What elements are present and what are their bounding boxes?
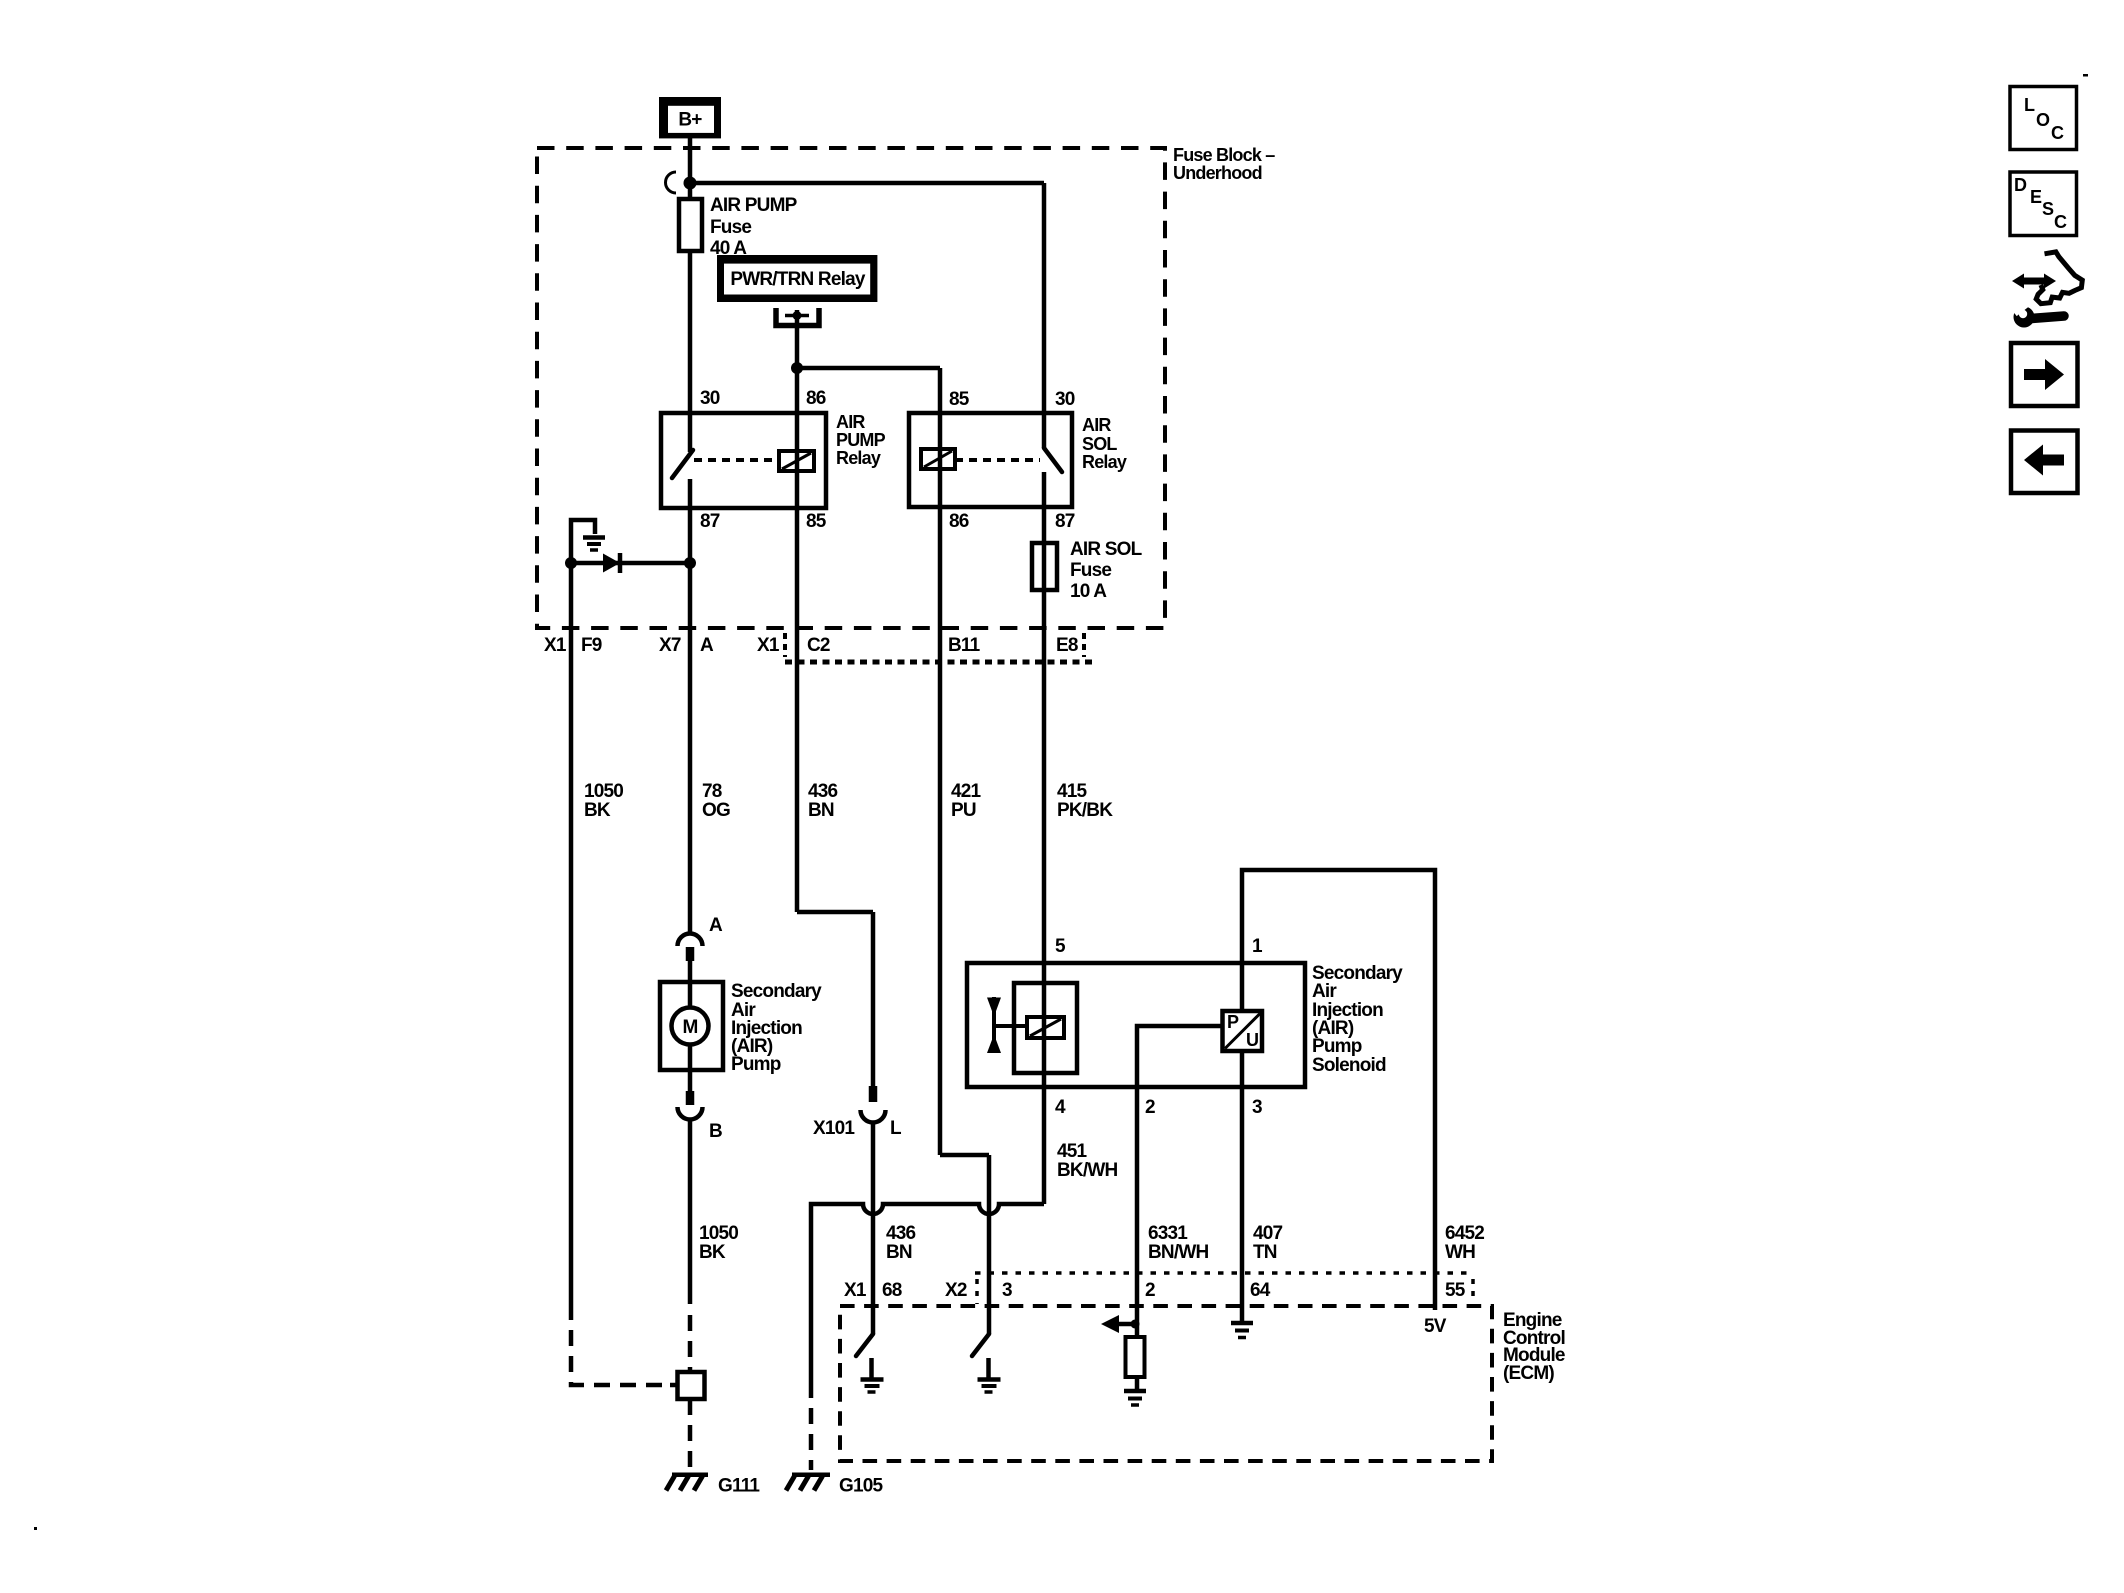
svg-text:SOL: SOL <box>1082 434 1117 454</box>
svg-text:X101: X101 <box>813 1118 855 1139</box>
node junction diode right <box>684 557 696 569</box>
wire below resistor <box>1135 1377 1140 1391</box>
motor M1 circle <box>672 1008 709 1045</box>
svg-text:407: 407 <box>1253 1223 1283 1244</box>
wire B+ drop to fuse <box>688 138 693 199</box>
relay K1 actuation dashed link <box>694 458 779 462</box>
ground symbol in ECM below X2-3 <box>978 1358 1001 1392</box>
Engine Control Module (ECM) dashed enclosure <box>840 1306 1492 1461</box>
svg-text:30: 30 <box>1055 389 1075 410</box>
wire splice tick <box>670 1383 678 1388</box>
relay K2 coil pins 85-86 <box>921 449 955 469</box>
wire ground reference stub in fuse block <box>571 520 595 563</box>
svg-text:M: M <box>682 1017 697 1038</box>
svg-text:AIR: AIR <box>836 412 865 432</box>
svg-text:AIR PUMP: AIR PUMP <box>710 195 798 216</box>
svg-text:Underhood: Underhood <box>1173 163 1262 183</box>
svg-text:86: 86 <box>806 388 826 409</box>
svg-text:1: 1 <box>1252 936 1263 957</box>
wire 1050 BK dashed to splice square <box>571 1304 672 1385</box>
svg-text:BN: BN <box>886 1242 912 1263</box>
connector B female half <box>678 1107 703 1120</box>
svg-text:85: 85 <box>949 389 970 410</box>
fuse AIR SOL Fuse 10 A <box>1032 543 1057 590</box>
svg-text:2: 2 <box>1145 1280 1155 1301</box>
svg-text:BN/WH: BN/WH <box>1148 1242 1208 1263</box>
wire feed across to AIR SOL relay pin 30 <box>690 181 1044 186</box>
svg-text:C2: C2 <box>807 635 830 656</box>
svg-text:S: S <box>2042 199 2054 219</box>
svg-text:X7: X7 <box>659 635 681 656</box>
wire motor internal <box>688 961 693 1091</box>
svg-text:B11: B11 <box>948 635 981 656</box>
svg-text:Relay: Relay <box>1082 452 1127 472</box>
svg-text:X1: X1 <box>844 1280 867 1301</box>
resistor in ECM <box>1126 1337 1145 1377</box>
svg-text:P: P <box>1227 1012 1239 1032</box>
svg-text:Pump: Pump <box>1312 1036 1362 1057</box>
wire dashed splice to G111 <box>688 1399 693 1470</box>
svg-text:451: 451 <box>1057 1141 1088 1162</box>
wire AIR SOL coil pin 85/86 down to B11 as ckt 421 <box>938 368 943 1155</box>
splice square to G111 <box>678 1372 705 1399</box>
svg-text:Air: Air <box>1312 981 1337 1002</box>
relay K2 AIR SOL Relay box <box>909 413 1072 507</box>
wire down to relay pin 30 right <box>1042 183 1047 413</box>
svg-text:415: 415 <box>1057 781 1088 802</box>
wire motor B down ckt 1050 BK <box>688 1119 693 1304</box>
connector X101 female half <box>861 1110 886 1123</box>
wire PWR/TRN coil feed pin 86 through coil pin 85 down to C2 <box>795 310 800 912</box>
svg-text:B: B <box>709 1121 722 1142</box>
wire AIR SOL pin 30 stub <box>1042 413 1047 448</box>
svg-text:Relay: Relay <box>836 448 881 468</box>
svg-text:L: L <box>890 1118 902 1139</box>
wire 421 PU down to ECM pin X2-3 <box>987 1155 992 1334</box>
svg-text:BK/WH: BK/WH <box>1057 1160 1117 1181</box>
sidebar icon back arrow box <box>2011 431 2078 494</box>
connector A male pin <box>686 947 695 961</box>
svg-text:D: D <box>2014 175 2027 195</box>
svg-text:64: 64 <box>1250 1280 1271 1301</box>
wire pin 87 down to motor connector A <box>688 479 693 934</box>
stray scan mark top right <box>2083 74 2088 77</box>
connector B male pin <box>686 1091 695 1105</box>
switch in ECM at pin X2-3 <box>972 1334 989 1356</box>
connector X101 male pin L <box>869 1086 878 1102</box>
svg-text:PU: PU <box>951 800 976 821</box>
svg-text:86: 86 <box>949 511 969 532</box>
relay K1 AIR PUMP Relay box <box>661 413 826 508</box>
wire branch to AIR SOL relay pin 85 <box>797 366 940 371</box>
motor M1 Secondary Air Injection Pump box <box>660 982 723 1070</box>
svg-text:E: E <box>2030 187 2042 207</box>
node junction diode left <box>565 557 577 569</box>
svg-text:85: 85 <box>806 511 827 532</box>
pressure transducer P/U box <box>1223 1011 1263 1051</box>
wire solenoid pin 2 jog <box>1137 1026 1223 1347</box>
ground symbol in ECM below X1-68 <box>861 1358 884 1392</box>
svg-text:3: 3 <box>1002 1280 1012 1301</box>
svg-text:1050: 1050 <box>699 1223 738 1244</box>
wire pin 87 through AIR SOL fuse and ckt 415 to solenoid pin 5 and pin 4 <box>1042 472 1047 1204</box>
solenoid coil <box>1027 1017 1064 1038</box>
svg-text:G111: G111 <box>718 1476 760 1497</box>
svg-text:B+: B+ <box>678 110 702 131</box>
wire 436 BN down to X101 connector <box>871 912 876 1086</box>
svg-text:BK: BK <box>699 1242 726 1263</box>
svg-text:(ECM): (ECM) <box>1503 1363 1554 1384</box>
battery feed B+ terminal box <box>659 97 721 138</box>
wire ECM signal arrow shaft <box>1114 1322 1137 1327</box>
fuse F9 AIR PUMP Fuse 40 A <box>679 199 702 251</box>
Fuse Block - Underhood dashed enclosure <box>537 148 1165 628</box>
svg-text:30: 30 <box>700 388 720 409</box>
svg-text:436: 436 <box>808 781 838 802</box>
svg-text:BN: BN <box>808 800 834 821</box>
svg-text:AIR: AIR <box>1082 415 1111 435</box>
svg-text:BK: BK <box>584 800 611 821</box>
wire diode branch <box>571 561 690 566</box>
solenoid Secondary Air Injection Pump Solenoid outer box <box>967 963 1305 1087</box>
chassis ground G105 <box>786 1475 830 1491</box>
PWR/TRN Relay feed box <box>717 255 877 302</box>
svg-text:Fuse Block –: Fuse Block – <box>1173 145 1275 165</box>
svg-text:5: 5 <box>1055 936 1066 957</box>
svg-text:Fuse: Fuse <box>710 217 751 238</box>
solenoid inner valve box <box>1014 983 1077 1073</box>
svg-text:55: 55 <box>1445 1280 1466 1301</box>
relay K1 switch blade pins 30-87 <box>672 450 693 478</box>
svg-text:L: L <box>2024 95 2035 115</box>
sidebar icon double arrow with route and wrench <box>2011 252 2082 328</box>
ground symbol in ECM below resistor <box>1124 1391 1146 1405</box>
svg-text:X1: X1 <box>544 635 567 656</box>
svg-text:Solenoid: Solenoid <box>1312 1055 1386 1076</box>
wire dashed to ground G105 <box>809 1382 814 1470</box>
node junction coil branch <box>791 362 803 374</box>
svg-text:3: 3 <box>1252 1097 1262 1118</box>
wire 436 BN jog right to X101 <box>797 910 873 915</box>
svg-text:X1: X1 <box>757 635 780 656</box>
svg-text:WH: WH <box>1445 1242 1475 1263</box>
ground bars in fuse block <box>583 538 605 551</box>
relay K1 coil pins 86-85 <box>779 451 814 471</box>
svg-text:Secondary: Secondary <box>731 981 822 1002</box>
wire solenoid pin 1 up and over ckt 6452 WH <box>1242 870 1435 1310</box>
svg-text:PK/BK: PK/BK <box>1057 800 1113 821</box>
ground symbol in ECM below pin 64 <box>1231 1323 1253 1338</box>
svg-text:A: A <box>709 915 723 936</box>
svg-text:421: 421 <box>951 781 982 802</box>
svg-text:OG: OG <box>702 800 730 821</box>
svg-text:10 A: 10 A <box>1070 581 1107 602</box>
diode CR1 in fuse block <box>603 553 620 573</box>
connector A female half <box>678 934 703 947</box>
svg-text:2: 2 <box>1145 1097 1155 1118</box>
svg-text:E8: E8 <box>1056 635 1078 656</box>
svg-text:6452: 6452 <box>1445 1223 1484 1244</box>
node junction at feed split <box>684 177 697 190</box>
svg-text:4: 4 <box>1055 1097 1066 1118</box>
wire solenoid pin 3 down ckt 407 TN to ECM 64 <box>1240 1051 1245 1323</box>
svg-text:O: O <box>2036 110 2050 130</box>
wire 421 PU jog right <box>940 1153 989 1158</box>
svg-text:TN: TN <box>1253 1242 1277 1263</box>
wire 1050 BK from F9 down <box>569 563 574 1304</box>
svg-text:A: A <box>700 635 714 656</box>
svg-text:5V: 5V <box>1424 1316 1447 1337</box>
svg-text:U: U <box>1246 1030 1258 1050</box>
switch in ECM at pin X1-68 <box>856 1334 873 1356</box>
wire 1050 BK dashed into splice <box>688 1315 693 1372</box>
sidebar icon DESC box <box>2010 172 2077 236</box>
svg-text:Fuse: Fuse <box>1070 560 1111 581</box>
svg-text:PWR/TRN Relay: PWR/TRN Relay <box>730 269 865 290</box>
svg-text:6331: 6331 <box>1148 1223 1188 1244</box>
svg-text:AIR SOL: AIR SOL <box>1070 539 1143 560</box>
svg-text:1050: 1050 <box>584 781 623 802</box>
fusible element curl <box>666 172 677 193</box>
svg-text:78: 78 <box>702 781 722 802</box>
chassis ground G111 <box>666 1475 708 1491</box>
sidebar icon forward arrow box <box>2011 343 2078 406</box>
sidebar icon LOC box <box>2010 87 2077 150</box>
relay K2 actuation dashed link <box>955 458 1040 462</box>
PWR/TRN relay output terminal bracket <box>776 308 819 326</box>
svg-text:87: 87 <box>1055 511 1075 532</box>
svg-text:C: C <box>2051 123 2064 143</box>
signal direction arrow in ECM <box>1101 1315 1140 1333</box>
svg-text:40 A: 40 A <box>710 238 747 259</box>
wire fuse to AIR PUMP relay pin 30 <box>688 251 693 452</box>
svg-text:C: C <box>2054 212 2067 232</box>
svg-text:436: 436 <box>886 1223 916 1244</box>
svg-text:G105: G105 <box>839 1476 884 1497</box>
svg-text:68: 68 <box>882 1280 902 1301</box>
svg-text:Pump: Pump <box>731 1054 781 1075</box>
wire 451 BK/WH to G105 with crossovers <box>811 1204 1044 1382</box>
ECM X2 connector dotted boundary <box>975 1271 1473 1275</box>
wire 436 BN below X101 to ECM pin X1-68 <box>871 1122 876 1334</box>
svg-text:F9: F9 <box>581 635 602 656</box>
relay K2 switch blade pins 30-87 <box>1044 448 1062 472</box>
svg-text:87: 87 <box>700 511 720 532</box>
relay connector X1 dotted boundary (C2 B11 E8) <box>783 633 787 657</box>
valve symbol <box>987 997 1027 1053</box>
svg-text:PUMP: PUMP <box>836 430 886 450</box>
stray scan mark bottom left <box>34 1527 37 1530</box>
svg-text:X2: X2 <box>945 1280 967 1301</box>
